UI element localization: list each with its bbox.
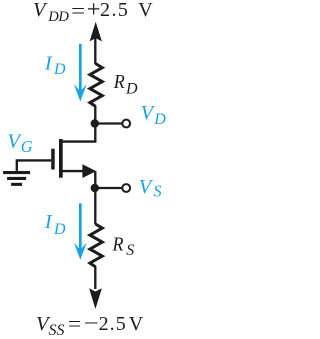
svg-text:V: V	[129, 313, 144, 335]
svg-text:D: D	[53, 221, 66, 238]
svg-text:D: D	[153, 111, 166, 128]
svg-text:R: R	[112, 233, 124, 255]
svg-text:S: S	[153, 182, 161, 201]
svg-text:G: G	[21, 137, 33, 156]
svg-text:I: I	[44, 52, 53, 74]
svg-text:2.5: 2.5	[99, 313, 127, 335]
svg-text:D: D	[53, 61, 66, 78]
svg-text:=: =	[71, 0, 85, 23]
svg-text:I: I	[44, 211, 53, 233]
svg-text:R: R	[113, 71, 125, 93]
svg-text:V: V	[138, 0, 153, 21]
svg-text:DD: DD	[47, 9, 69, 25]
svg-text:SS: SS	[49, 322, 65, 339]
svg-text:−: −	[84, 312, 99, 334]
svg-text:=: =	[68, 312, 81, 336]
svg-text:S: S	[126, 242, 134, 259]
svg-text:V: V	[33, 0, 48, 21]
svg-text:+: +	[87, 0, 101, 23]
svg-text:V: V	[139, 176, 154, 198]
svg-text:D: D	[125, 81, 138, 98]
svg-text:2.5: 2.5	[100, 0, 129, 21]
